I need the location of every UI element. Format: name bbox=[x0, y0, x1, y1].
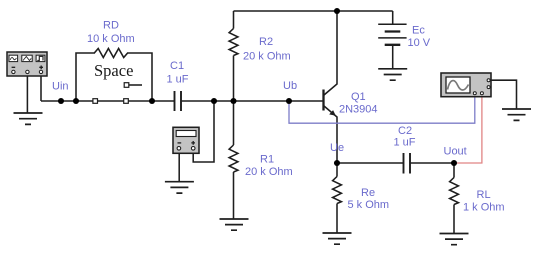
function generator sine window bbox=[9, 55, 18, 61]
svg-text:5 k Ohm: 5 k Ohm bbox=[348, 199, 390, 211]
node: junction dot Ub bbox=[286, 98, 292, 104]
wire: R1 riser segments bbox=[233, 101, 235, 219]
wire: emitter output run Ue to C2 and on to Uout bbox=[337, 162, 454, 164]
transistor Q1 emitter lead bbox=[324, 106, 337, 163]
transistor Q1 collector lead bbox=[324, 11, 337, 95]
transistor Q1 base bar bbox=[322, 90, 324, 111]
svg-text:Uin: Uin bbox=[52, 81, 69, 93]
svg-text:Ec: Ec bbox=[412, 25, 425, 37]
ground (battery) bbox=[378, 69, 407, 80]
ground (multimeter) bbox=[165, 182, 194, 193]
multimeter minus mark bbox=[178, 142, 182, 144]
function generator plus mark bbox=[39, 66, 43, 70]
function generator body bbox=[7, 52, 47, 76]
multimeter terminal circles bbox=[177, 147, 181, 151]
node: junction dot divider R2/R1 bbox=[230, 98, 236, 104]
wire: Re riser segments bbox=[336, 163, 338, 233]
svg-text:1 uF: 1 uF bbox=[394, 137, 416, 149]
switch [Space] lever contact square bbox=[124, 83, 129, 88]
ground (R1) bbox=[220, 219, 249, 230]
svg-text:1 uF: 1 uF bbox=[167, 74, 189, 86]
oscilloscope body bbox=[441, 73, 491, 97]
svg-text:Uout: Uout bbox=[444, 146, 467, 158]
oscilloscope screen bbox=[446, 77, 470, 93]
wire: multimeter tap from node at (214,101) bbox=[193, 101, 214, 162]
ground (oscilloscope) bbox=[502, 109, 531, 120]
battery Ec bottom lead bbox=[392, 45, 394, 69]
wire: RL riser segments bbox=[453, 163, 455, 234]
switch [Space] lever arm bbox=[129, 84, 142, 86]
svg-text:Space: Space bbox=[94, 61, 133, 80]
node: junction dot RD branch right bbox=[149, 98, 155, 104]
multimeter display bbox=[176, 131, 196, 137]
function generator square window bbox=[36, 55, 45, 61]
svg-text:C1: C1 bbox=[170, 60, 184, 72]
svg-text:10 k Ohm: 10 k Ohm bbox=[87, 33, 135, 45]
resistor RL 1 k Ohm (vertical zigzag) bbox=[450, 178, 459, 205]
wire: scope channel B probe (red) from Uout bbox=[454, 97, 482, 163]
wire: top supply rail bbox=[234, 10, 393, 12]
svg-text:RL: RL bbox=[477, 189, 491, 201]
svg-text:R1: R1 bbox=[260, 153, 274, 165]
wire: RD parallel branch (left riser, top run, right riser) bbox=[76, 53, 152, 101]
wire: multimeter minus terminal to ground bbox=[178, 154, 180, 182]
node: junction dot Ue bbox=[334, 160, 340, 166]
svg-text:2N3904: 2N3904 bbox=[339, 104, 378, 116]
oscilloscope bottom terminals bbox=[473, 92, 476, 95]
node: junction dot Uout bbox=[451, 160, 457, 166]
function generator minus mark bbox=[12, 66, 16, 68]
function generator triangle window bbox=[22, 55, 32, 61]
svg-text:Re: Re bbox=[361, 187, 375, 199]
svg-text:20 k Ohm: 20 k Ohm bbox=[245, 166, 293, 178]
wire: R2 riser segments bbox=[233, 11, 235, 101]
switch [Space] terminal square left bbox=[93, 99, 98, 104]
oscilloscope screen sine trace bbox=[448, 81, 469, 90]
ground (function generator) bbox=[14, 113, 43, 124]
function generator terminal circles bbox=[12, 70, 15, 73]
resistor R2 20 k Ohm (vertical zigzag) bbox=[229, 29, 238, 56]
resistor Re 5 k Ohm (vertical zigzag) bbox=[333, 177, 342, 204]
battery Ec top lead bbox=[392, 11, 394, 24]
multimeter plus mark bbox=[191, 141, 195, 145]
wire: oscilloscope ground lead bbox=[491, 80, 517, 109]
ground (RL) bbox=[440, 234, 469, 245]
svg-text:RD: RD bbox=[103, 20, 119, 32]
battery Ec plates bbox=[378, 24, 406, 38]
capacitor C1 plates bbox=[175, 91, 182, 111]
transistor Q1 emitter arrow bbox=[329, 110, 336, 116]
svg-text:Q1: Q1 bbox=[351, 91, 366, 103]
svg-text:10 V: 10 V bbox=[408, 37, 431, 49]
capacitor C2 plates bbox=[404, 153, 411, 174]
resistor RD 10 k Ohm (horizontal zigzag) bbox=[94, 49, 127, 58]
resistor R1 20 k Ohm (vertical zigzag) bbox=[229, 145, 238, 172]
oscilloscope side terminals bbox=[487, 79, 490, 82]
wire: function generator + terminal drop bbox=[40, 76, 42, 101]
wire: scope channel A probe (blue) from Ub bbox=[289, 97, 475, 124]
svg-text:Ub: Ub bbox=[283, 80, 297, 92]
svg-text:R2: R2 bbox=[259, 36, 273, 48]
svg-text:C2: C2 bbox=[398, 125, 412, 137]
node: junction dot RD branch left bbox=[73, 98, 79, 104]
svg-text:20 k Ohm: 20 k Ohm bbox=[243, 51, 291, 63]
wire: main horizontal net Uin/Ub at y=101 bbox=[41, 100, 323, 102]
node: junction dot collector/rail bbox=[334, 8, 340, 14]
node: junction dot multimeter tap bbox=[211, 98, 217, 104]
wire: function generator common terminal to ground bbox=[26, 76, 28, 113]
switch [Space] terminal square right bbox=[124, 99, 129, 104]
node: junction dot Uin connector bbox=[58, 98, 64, 104]
ground (Re) bbox=[323, 233, 352, 244]
multimeter body bbox=[173, 127, 199, 153]
svg-text:1 k Ohm: 1 k Ohm bbox=[463, 201, 505, 213]
svg-text:Ue: Ue bbox=[330, 142, 344, 154]
